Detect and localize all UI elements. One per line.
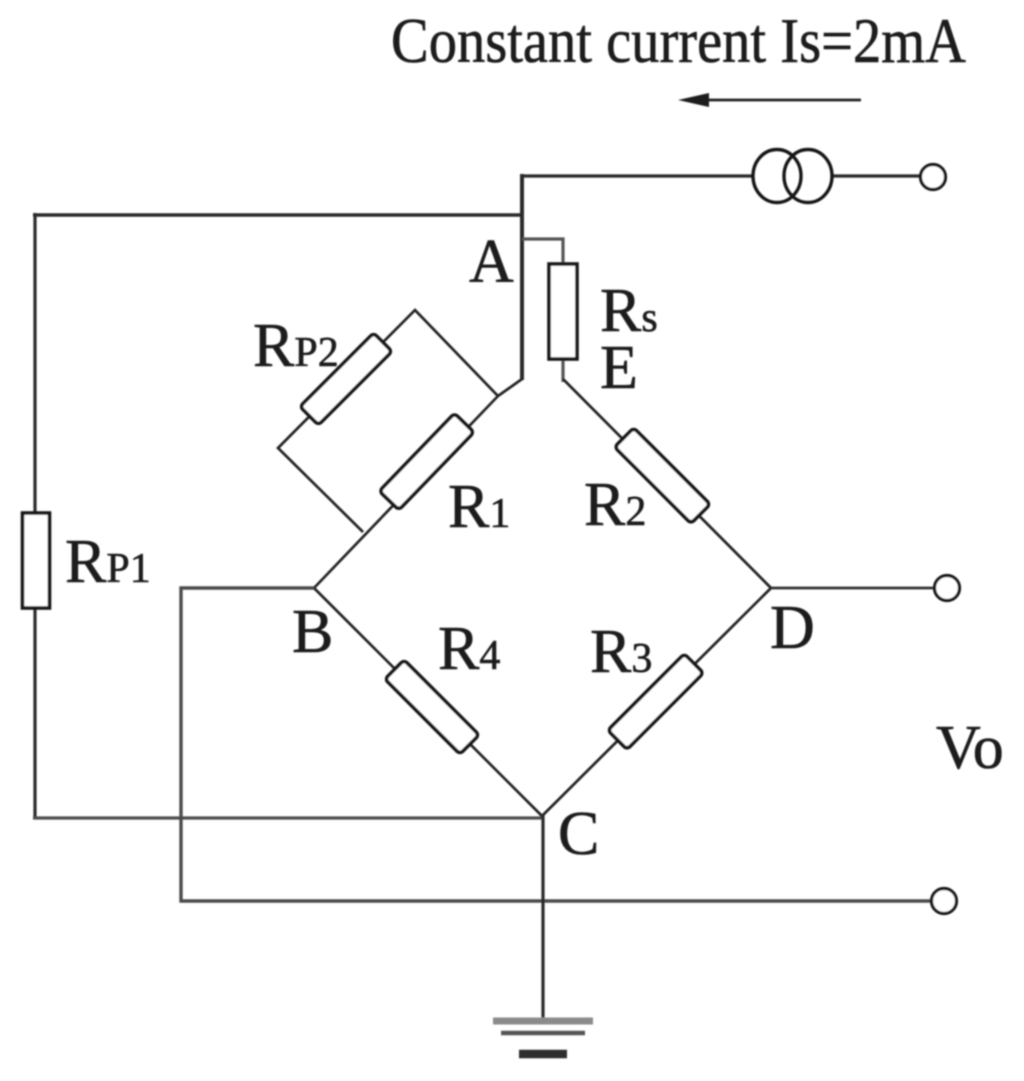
svg-text:B: B: [292, 598, 333, 666]
svg-text:RP2: RP2: [253, 312, 339, 380]
svg-text:A: A: [469, 228, 514, 296]
svg-text:C: C: [558, 800, 599, 868]
svg-text:R3: R3: [590, 618, 652, 686]
svg-text:R1: R1: [448, 473, 510, 541]
svg-text:R2: R2: [584, 471, 646, 539]
svg-text:R4: R4: [438, 615, 500, 683]
svg-text:Vo: Vo: [936, 714, 1004, 782]
svg-text:Rs: Rs: [600, 277, 658, 345]
svg-text:D: D: [770, 594, 815, 662]
svg-text:Constant current Is=2mA: Constant current Is=2mA: [391, 6, 966, 76]
svg-text:RP1: RP1: [65, 528, 151, 596]
